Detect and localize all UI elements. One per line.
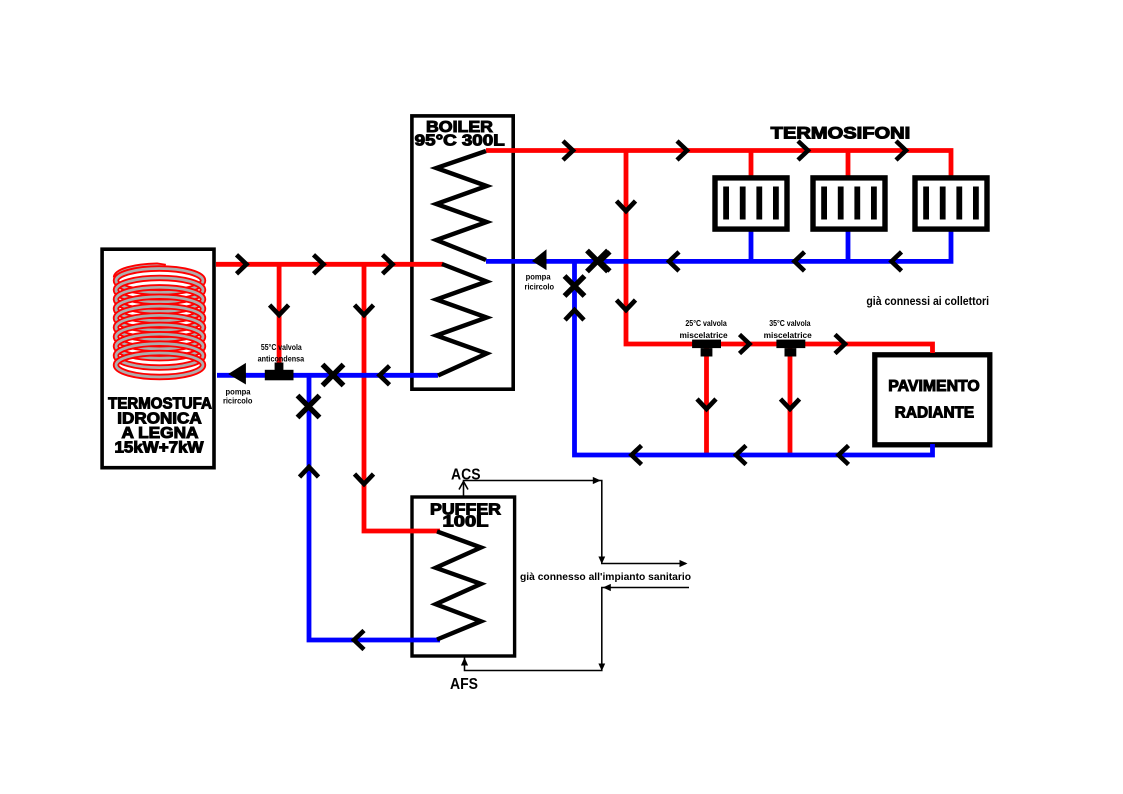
flow arrow right R1d — [896, 141, 906, 160]
flow arrow right R1b — [677, 141, 687, 160]
flow arrow down R3b — [617, 300, 636, 310]
pavimento radiante box — [875, 355, 990, 445]
boiler upper heat-exchanger coil — [436, 151, 486, 260]
coil ring 8 — [116, 334, 203, 358]
THIN SANITARY LINES — [464, 481, 690, 671]
wire red stub radiator R1 — [749, 151, 754, 177]
flow arrow right mix a — [740, 335, 750, 354]
termostufa box — [102, 249, 214, 468]
flow arrow left B2b — [736, 446, 746, 465]
pompa ricircolo boiler (triangle) — [532, 249, 547, 270]
svg-text:AFS: AFS — [450, 676, 478, 693]
AFS up arrowhead into puffer — [461, 658, 468, 666]
wire red stub radiator R2 — [846, 151, 851, 177]
wire red branch to puffer — [364, 264, 440, 531]
VALVES — [298, 251, 609, 418]
flow arrow down R8b — [355, 474, 374, 484]
flow arrow right R6c — [383, 255, 393, 274]
flow arrow down R3a — [617, 201, 636, 211]
svg-text:RADIANTE: RADIANTE — [895, 405, 974, 422]
ACS right arrowhead end — [680, 560, 688, 567]
wire red branch to anticondensa valve — [277, 264, 282, 364]
flow arrow right R6b — [314, 255, 324, 274]
wire blue boiler return to termostufa — [217, 373, 438, 378]
flow arrow up B2 riser — [565, 310, 584, 320]
flow arrow left B4 — [354, 631, 364, 650]
flow arrow left B2c — [839, 446, 849, 465]
ACS right arrowhead mid — [593, 477, 601, 484]
wire blue floor return riser — [575, 261, 933, 455]
coil ring 1 — [116, 269, 203, 293]
flow arrow right mix b — [835, 335, 845, 354]
BLUE PIPES (ritorno) — [217, 230, 951, 640]
coil ring 4 — [116, 297, 203, 321]
wire red drop valve 35C to floor return — [788, 348, 793, 453]
coil ring 5 — [116, 306, 203, 330]
radiator R2 — [813, 178, 885, 229]
flow arrow right R1c — [798, 141, 808, 160]
AFS left arrowhead — [603, 584, 611, 591]
wire blue stub radiator R2 — [846, 230, 851, 261]
svg-text:55°C valvola: 55°C valvola — [261, 342, 302, 352]
valvola miscelatrice 25C stem — [701, 348, 713, 356]
svg-text:95°C 300L: 95°C 300L — [415, 132, 505, 149]
wire AFS to puffer bottom — [465, 588, 690, 671]
svg-text:già connessi ai collettori: già connessi ai collettori — [866, 294, 989, 308]
svg-text:ricircolo: ricircolo — [223, 395, 253, 405]
svg-text:15kW+7kW: 15kW+7kW — [115, 440, 204, 457]
flow arrow left B1a — [600, 252, 610, 271]
svg-text:ACS: ACS — [451, 467, 481, 484]
flow arrow left B1d — [892, 252, 902, 271]
flow arrow left B1c — [795, 252, 805, 271]
shut-off valve X on blue riser B2 — [565, 276, 585, 296]
wire red drop to mixing line — [626, 151, 933, 354]
radiator R1 — [715, 178, 787, 229]
flow arrow right R1a — [563, 141, 573, 160]
shut-off valve X on blue B4 — [298, 396, 320, 418]
pompa ricircolo termostufa (triangle) — [228, 363, 246, 385]
ACS corner down arrowhead — [598, 557, 605, 565]
svg-text:miscelatrice: miscelatrice — [680, 330, 728, 340]
coil ring 6 — [116, 315, 203, 339]
FLOW ARROWS (black chevrons) — [237, 141, 907, 650]
svg-text:già connesso all'impianto sani: già connesso all'impianto sanitario — [520, 571, 691, 583]
flow arrow left B2a — [632, 446, 642, 465]
coil ring 2 — [116, 278, 203, 302]
flow arrow down valve25 — [697, 399, 716, 409]
svg-text:pompa: pompa — [526, 272, 551, 282]
coil ring 9 — [116, 344, 203, 368]
wire ACS from puffer top — [464, 481, 687, 564]
svg-text:25°C valvola: 25°C valvola — [685, 318, 727, 328]
flow arrow right R6a — [237, 255, 247, 274]
svg-text:TERMOSIFONI: TERMOSIFONI — [771, 125, 911, 143]
svg-text:miscelatrice: miscelatrice — [764, 330, 812, 340]
wire blue stub radiator R1 — [749, 230, 754, 261]
puffer box — [412, 497, 515, 656]
boiler lower heat-exchanger coil — [436, 264, 486, 376]
svg-text:100L: 100L — [443, 514, 489, 531]
shut-off valve X on blue B1 — [587, 251, 608, 272]
coil ring 10 — [116, 353, 203, 377]
valvola anticondensa 55C stem — [275, 363, 284, 371]
wire blue branch to puffer — [309, 375, 440, 640]
coil top end arc — [116, 266, 166, 278]
flow arrow left B1b — [669, 252, 679, 271]
wire blue termosifoni return to boiler — [486, 230, 951, 261]
svg-text:anticondensa: anticondensa — [258, 354, 305, 364]
flow arrow down R8a — [355, 305, 374, 315]
coil ring 3 — [116, 287, 203, 311]
wire red termostufa to boiler — [216, 262, 443, 267]
shut-off valve X on blue B3 — [323, 365, 344, 386]
coil ring 7 — [116, 325, 203, 349]
AFS corner down arrowhead — [598, 664, 605, 672]
valvola miscelatrice 35C body — [776, 340, 805, 349]
svg-text:35°C valvola: 35°C valvola — [769, 318, 811, 328]
valvola anticondensa 55C body — [265, 370, 294, 381]
valvola miscelatrice 35C stem — [785, 348, 797, 356]
puffer heat-exchanger coil — [436, 531, 481, 639]
svg-text:PAVIMENTO: PAVIMENTO — [888, 378, 980, 395]
svg-text:ricircolo: ricircolo — [525, 281, 555, 291]
flow arrow up B4 — [300, 467, 319, 477]
flow arrow down R7 — [270, 305, 289, 315]
wire red drop valve 25C to floor return — [704, 348, 709, 453]
valvola miscelatrice 25C body — [692, 340, 721, 349]
wire red boiler to termosifoni top — [486, 151, 951, 177]
flow arrow left B3 — [380, 366, 390, 385]
boiler box — [412, 116, 513, 389]
ACS small up arrow — [459, 482, 468, 490]
radiator R3 — [915, 178, 987, 229]
RED PIPES (mandata) — [216, 151, 951, 532]
flow arrow down valve35 — [781, 399, 800, 409]
